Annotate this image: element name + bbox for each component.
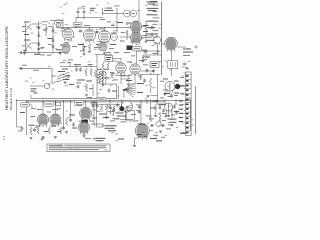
wire riser E bbox=[157, 75, 159, 101]
value label P boxes bbox=[31, 97, 92, 109]
capacitor C18 bbox=[79, 67, 82, 71]
small tube V13 bbox=[165, 103, 173, 113]
capacitor C29 bbox=[138, 105, 141, 109]
CRT socket strip bbox=[186, 72, 192, 136]
capacitor C38 bbox=[170, 93, 173, 97]
wire V10 V11 connect bbox=[84, 122, 86, 123]
wire R9 down bbox=[102, 70, 104, 84]
ground R9 bbox=[102, 85, 105, 87]
wire V3 pin up bbox=[104, 28, 106, 31]
wire sync out bbox=[177, 46, 186, 48]
resistor R19 bbox=[105, 104, 107, 112]
wire right low link bbox=[157, 103, 166, 104]
wire stub V12 bbox=[149, 130, 153, 132]
tube V10 bbox=[80, 107, 92, 121]
capacitor C4 bbox=[37, 33, 40, 37]
capacitor C5 bbox=[37, 42, 40, 46]
capacitor C26 bbox=[96, 104, 99, 108]
resistor R26 below V2 bbox=[83, 47, 85, 53]
ground bottom right bbox=[133, 145, 136, 147]
resistor R21 bbox=[154, 104, 156, 112]
wire V9B to T1 bbox=[171, 50, 173, 61]
ground R16 bbox=[65, 132, 68, 134]
mid extras bbox=[52, 60, 74, 77]
figure label F-1 (rotated) bbox=[2, 135, 6, 140]
wire top small stubs bbox=[63, 12, 103, 21]
wire below V6 bbox=[130, 80, 136, 84]
value label top bbox=[90, 8, 96, 11]
value labels net A/B bbox=[22, 50, 51, 71]
ground V2 cathode bbox=[88, 51, 91, 53]
capacitor C27 bbox=[109, 106, 112, 110]
wire R11 gnd link bbox=[151, 95, 158, 97]
junction dots mid bbox=[76, 66, 92, 67]
resistor R7 bbox=[90, 68, 92, 76]
value labels right cluster bbox=[149, 108, 175, 130]
value labels below V7 bbox=[160, 96, 173, 98]
wire net D bbox=[140, 74, 160, 76]
svg-text:HEATHKIT LABORATORY OSCILLOSCO: HEATHKIT LABORATORY OSCILLOSCOPE bbox=[5, 25, 9, 110]
wire R21 gnd bbox=[155, 112, 157, 115]
wire under V2 bbox=[80, 43, 84, 51]
tube V12 power bbox=[135, 124, 149, 140]
capacitor C8 bbox=[77, 10, 80, 14]
wire shield arc bbox=[40, 21, 50, 24]
bus drops bbox=[27, 100, 176, 135]
capacitor C35 bbox=[146, 68, 149, 72]
note box bbox=[47, 144, 110, 152]
label EXT extra bbox=[183, 46, 197, 56]
resistor R15 bbox=[59, 127, 61, 134]
switch S2 wafer bbox=[97, 73, 103, 84]
resistor R24 bbox=[159, 112, 161, 123]
variable capacitor C1 bbox=[25, 24, 32, 31]
value labels attenuator bbox=[24, 22, 53, 55]
tube V7 gas triode bbox=[165, 81, 175, 93]
capacitor C37 below V7 bbox=[164, 91, 167, 96]
capacitor C12 bbox=[151, 25, 154, 29]
wire bus drop bbox=[30, 95, 32, 98]
value labels S4 extra bbox=[107, 107, 136, 115]
wire top feed bbox=[103, 8, 124, 14]
capacitor C32 bbox=[161, 124, 165, 127]
diamond indicator bbox=[155, 121, 161, 127]
rotary switch S4 bbox=[121, 101, 132, 112]
wire grid riser x117 bbox=[115, 6, 120, 28]
CRT pin labels bbox=[179, 101, 183, 123]
ground V8 bbox=[42, 137, 45, 139]
ground R26 bbox=[83, 54, 86, 56]
capacitor C20 bbox=[139, 74, 142, 78]
top bracket mark bbox=[150, 1, 157, 4]
value labels V2 bbox=[83, 25, 99, 48]
resistor R4 cathode V3 bbox=[103, 45, 105, 52]
value labels right mid bbox=[163, 79, 179, 95]
value labels V12 bbox=[135, 105, 151, 122]
switch S3 contacts bbox=[63, 72, 69, 80]
capacitor C36 bbox=[152, 69, 155, 73]
value labels sweep2 bbox=[110, 52, 148, 80]
wire component row feed bbox=[91, 101, 114, 104]
box power bbox=[126, 111, 135, 121]
terminal block dark bbox=[127, 46, 133, 51]
wire drop net C bbox=[96, 67, 98, 99]
wire horizontal net B bbox=[20, 68, 52, 70]
capacitor C44 ladder bbox=[52, 44, 55, 48]
resistor R27 bbox=[85, 84, 87, 92]
wire net A extension bbox=[95, 54, 112, 56]
wire sync in bbox=[161, 43, 165, 45]
filter caps cluster bbox=[69, 115, 77, 129]
resistor R23 between V5 V6 bbox=[127, 74, 129, 82]
wire S2 down bbox=[123, 91, 125, 98]
capacitor C16 line end bbox=[19, 67, 23, 70]
value labels mid bbox=[62, 64, 93, 85]
capacitor C30 bbox=[138, 110, 141, 114]
value labels V7 bbox=[160, 81, 178, 96]
scattered component value labels bbox=[25, 3, 194, 151]
tube V9B sync bbox=[165, 37, 178, 51]
wire heater drop bbox=[138, 1, 140, 22]
ground left bbox=[30, 138, 33, 140]
wire sweep to border bbox=[157, 45, 161, 62]
value label B+ bbox=[104, 8, 113, 11]
resistor R8 bbox=[94, 70, 96, 78]
wire left riser bbox=[16, 100, 18, 127]
ground S3 bbox=[64, 82, 67, 84]
ground R27 bbox=[85, 95, 88, 97]
CRT labels left bbox=[180, 77, 184, 94]
capacitor C19 bbox=[111, 72, 114, 76]
junction net A bbox=[59, 52, 60, 53]
tube V3 bbox=[99, 31, 111, 45]
wire net C bbox=[60, 66, 97, 68]
wire V13 down bbox=[167, 111, 170, 117]
terminal box TB2 bbox=[150, 62, 159, 68]
wire sync feed long bbox=[143, 54, 161, 56]
value labels V1 bbox=[61, 28, 77, 47]
schematic border line bbox=[161, 2, 163, 76]
wire S1 feed bbox=[52, 81, 58, 84]
phono jack J1 bbox=[44, 83, 50, 89]
wire wafer feed bbox=[100, 83, 117, 85]
capacitor C43 ladder bbox=[37, 47, 40, 51]
wire V2 pin up bbox=[89, 28, 91, 30]
wire V4A plate bbox=[142, 26, 147, 28]
capacitor C7 bbox=[52, 38, 55, 42]
wire attenuator ladder right bbox=[52, 23, 54, 53]
tube V4A bbox=[131, 21, 142, 34]
tube V6 bbox=[130, 64, 140, 76]
resistor R17 bbox=[30, 127, 32, 135]
tube V1 bbox=[63, 29, 74, 42]
potentiometer R20 bbox=[119, 106, 125, 112]
resistor R3 cathode V2 bbox=[88, 44, 90, 51]
junction dots top bus bbox=[67, 27, 117, 28]
capacitor C40 bbox=[173, 104, 176, 108]
capacitor C3 bbox=[37, 26, 40, 30]
wire V4B plate bbox=[142, 37, 153, 39]
wire V7 to R12 bbox=[174, 85, 176, 87]
capacitor C39 bbox=[164, 115, 168, 118]
ground R21 bbox=[154, 115, 157, 117]
capacitor C11 coupling bbox=[95, 31, 99, 34]
value labels right low bbox=[153, 100, 180, 122]
value labels low mid bbox=[76, 83, 93, 89]
ground ext bbox=[185, 68, 188, 70]
wire V6 cathode bbox=[134, 74, 136, 80]
capacitor C33 bbox=[151, 32, 154, 36]
capacitor C41 left mid bbox=[23, 51, 26, 55]
tube V9A small bbox=[153, 33, 160, 45]
capacitor C13 ext bbox=[182, 63, 186, 66]
notes column extra bbox=[153, 5, 160, 38]
socket dark blob bbox=[82, 120, 88, 123]
wire V4 couple bbox=[120, 36, 131, 38]
wire V6 top bbox=[136, 51, 138, 64]
bottom right text specks bbox=[137, 135, 165, 138]
tube V5 bbox=[116, 63, 126, 75]
bottom extras bbox=[17, 101, 109, 132]
wire risers sweep bbox=[117, 84, 119, 99]
border line right bbox=[195, 86, 197, 134]
attenuator labels 2 bbox=[22, 26, 52, 48]
value label net A bbox=[56, 49, 62, 50]
wire grid bus bbox=[56, 27, 132, 29]
capacitor C6 bbox=[52, 28, 55, 32]
resistor R11 bbox=[149, 78, 151, 88]
label box sweep bbox=[132, 47, 142, 52]
switch wafer resistors bbox=[97, 69, 108, 81]
text notes row bbox=[96, 133, 187, 142]
resistor R10 bbox=[107, 62, 109, 70]
wire B+ right top bbox=[137, 50, 162, 52]
wire R12 to CRT strip bbox=[180, 86, 185, 88]
rotary switch S1 bbox=[58, 74, 64, 82]
tube V8 power rectifier bbox=[37, 114, 48, 127]
resistor R13 bbox=[37, 127, 39, 134]
variable capacitor C2 bbox=[25, 43, 32, 50]
value labels sweep bbox=[105, 78, 145, 94]
resistor R16 bbox=[65, 118, 67, 126]
value labels amp row bbox=[60, 22, 149, 46]
wire J1 left bbox=[30, 85, 44, 87]
value label left bbox=[20, 112, 35, 126]
bus drops 2 bbox=[26, 100, 147, 125]
capacitor C15 on net bbox=[59, 51, 62, 55]
wire attenuator cross top bbox=[32, 23, 39, 25]
sweep extras bbox=[106, 52, 150, 63]
ground V3 cathode bbox=[103, 53, 106, 55]
capacitor C46 bbox=[108, 88, 111, 92]
junction dots bottom bus2 bbox=[16, 100, 177, 101]
resistor R9 bbox=[102, 62, 104, 70]
resistor R5 plate bbox=[145, 21, 147, 34]
capacitor C17 bbox=[75, 67, 78, 71]
label VERT INPUT bbox=[31, 88, 38, 93]
wire drop R11 bbox=[150, 88, 152, 93]
wire heater link bbox=[91, 123, 104, 125]
wire link cathodes bbox=[121, 78, 129, 80]
wire attenuator cross mid bbox=[32, 42, 39, 44]
CRT wire stubs bbox=[182, 76, 186, 132]
text row extra bbox=[85, 137, 91, 140]
wire right edge bbox=[190, 101, 192, 131]
wire bottom-center links bbox=[93, 110, 113, 127]
value labels V10 V11 bbox=[77, 105, 97, 122]
capacitor C42 sweep bbox=[143, 51, 147, 54]
tube V9 power rectifier bbox=[50, 114, 61, 127]
label box input2 bbox=[56, 23, 61, 27]
label EXT SYNC bbox=[183, 49, 193, 53]
tube V3B lower section bbox=[98, 42, 107, 50]
resistor R6 bbox=[85, 68, 87, 76]
wire main B+ bus bbox=[17, 100, 191, 102]
wire row link right bbox=[114, 104, 157, 108]
value labels S3 bbox=[60, 61, 71, 64]
capacitor C22 bbox=[62, 126, 65, 130]
svg-text:F-1: F-1 bbox=[2, 135, 6, 140]
wire under V5V6 bbox=[115, 75, 131, 77]
resistor R2 cathode V1 bbox=[66, 42, 68, 49]
wire heater long bottom bbox=[102, 124, 104, 127]
value labels bottom center bbox=[96, 111, 127, 123]
wire drop x93 bbox=[92, 84, 94, 96]
tube V4B bbox=[131, 32, 142, 45]
text lines center bbox=[105, 125, 117, 131]
label box P3 bbox=[74, 100, 84, 104]
neon lamp NE-1 bbox=[111, 30, 118, 40]
transformer box T1 bbox=[168, 61, 178, 69]
label box TO ALL HEATERS bbox=[124, 10, 137, 17]
notes text column bbox=[147, 2, 159, 41]
label box P1 bbox=[20, 103, 29, 108]
wire R11 riser bbox=[150, 100, 151, 115]
resistor R25 sweep bbox=[142, 56, 149, 58]
value labels sweep3 bbox=[142, 50, 159, 60]
wire drop to switch bbox=[51, 68, 53, 83]
tube V1B lower section bbox=[62, 42, 70, 54]
junction dots attenuator bbox=[38, 23, 53, 43]
resistor R28 bbox=[113, 106, 115, 112]
right cluster extras bbox=[162, 108, 178, 126]
wire heater top bbox=[76, 17, 103, 19]
label box P4 bbox=[97, 97, 106, 101]
label box P2 bbox=[44, 102, 54, 107]
capacitor C10 coupling bbox=[78, 30, 82, 33]
terminal box TB3 bbox=[56, 102, 61, 106]
label box V1 bbox=[73, 22, 82, 26]
wire T1 down bbox=[171, 68, 173, 76]
wire V12 top link bbox=[137, 123, 145, 124]
wire riser to top net bbox=[75, 18, 77, 28]
potentiometer R12 intensity bbox=[174, 84, 180, 90]
svg-text:Model O-10: Model O-10 bbox=[9, 87, 13, 110]
wire V1 pin up bbox=[67, 28, 69, 29]
ground V1 cathode bbox=[66, 51, 69, 53]
value labels V3 bbox=[99, 19, 115, 49]
ground V11 bbox=[83, 133, 86, 137]
value labels center bbox=[92, 102, 110, 118]
resistor R18 bbox=[100, 104, 102, 112]
wire plate V3 up bbox=[111, 28, 118, 34]
value labels V4 bbox=[121, 21, 153, 43]
wire V5 cathode bbox=[120, 73, 122, 84]
capacitor C28 bbox=[112, 108, 115, 112]
value labels S4 bbox=[114, 113, 127, 120]
wire S4 down bbox=[120, 112, 133, 119]
tube V2 bbox=[84, 29, 96, 43]
rotary switch S2 fan bbox=[123, 84, 136, 97]
wire net C riser bbox=[96, 55, 98, 67]
capacitor C25 bbox=[92, 104, 95, 108]
ground diamond bbox=[159, 131, 162, 133]
capacitor C34 below R23 bbox=[127, 82, 130, 86]
resistor R22 V4 grid bbox=[126, 30, 128, 40]
capacitor C21 bbox=[143, 78, 146, 82]
wire attenuator ladder left bbox=[38, 21, 40, 53]
resistor R1 bbox=[45, 24, 47, 36]
capacitor C31 bbox=[150, 124, 154, 127]
value labels S1 bbox=[58, 71, 71, 80]
wire plate V2 to V3 bbox=[96, 31, 99, 33]
ground R5 bbox=[145, 41, 148, 43]
tube V11 bbox=[79, 122, 90, 135]
ground V9 bbox=[54, 137, 57, 139]
wire sweep net bbox=[141, 70, 154, 72]
value labels rectifier tubes bbox=[31, 109, 58, 117]
wire top link bbox=[50, 21, 63, 28]
wire wafer bottom bbox=[100, 81, 106, 84]
wire V5 grid bbox=[113, 59, 122, 63]
wire bottom right drop bbox=[134, 138, 136, 145]
capacitor C47 bbox=[116, 103, 119, 107]
wire R5 down bbox=[145, 34, 147, 40]
ground sweep bbox=[147, 96, 150, 98]
capacitor C14 line end bbox=[19, 51, 23, 54]
resistor R14 bbox=[48, 127, 50, 134]
terminal box TB1 bbox=[105, 56, 113, 62]
title text: HEATHKIT LABORATORY OSCILLOSCOPE (rotated) bbox=[5, 25, 13, 110]
wire ground bus bottom mid bbox=[31, 98, 117, 100]
components cluster right bbox=[149, 101, 165, 122]
label box input bbox=[55, 20, 63, 25]
heater junctions bbox=[77, 8, 84, 18]
value labels rect bbox=[36, 126, 62, 133]
wire main B+ bus lower bbox=[27, 101, 165, 103]
capacitor C45 bbox=[77, 84, 80, 88]
capacitor C24 bbox=[33, 128, 36, 132]
attenuator left rail bbox=[25, 23, 26, 52]
ground note left bbox=[41, 139, 44, 141]
capacitor C23 bbox=[69, 118, 72, 122]
capacitor C9 bbox=[83, 10, 86, 14]
wire horizontal net A bbox=[23, 52, 65, 54]
